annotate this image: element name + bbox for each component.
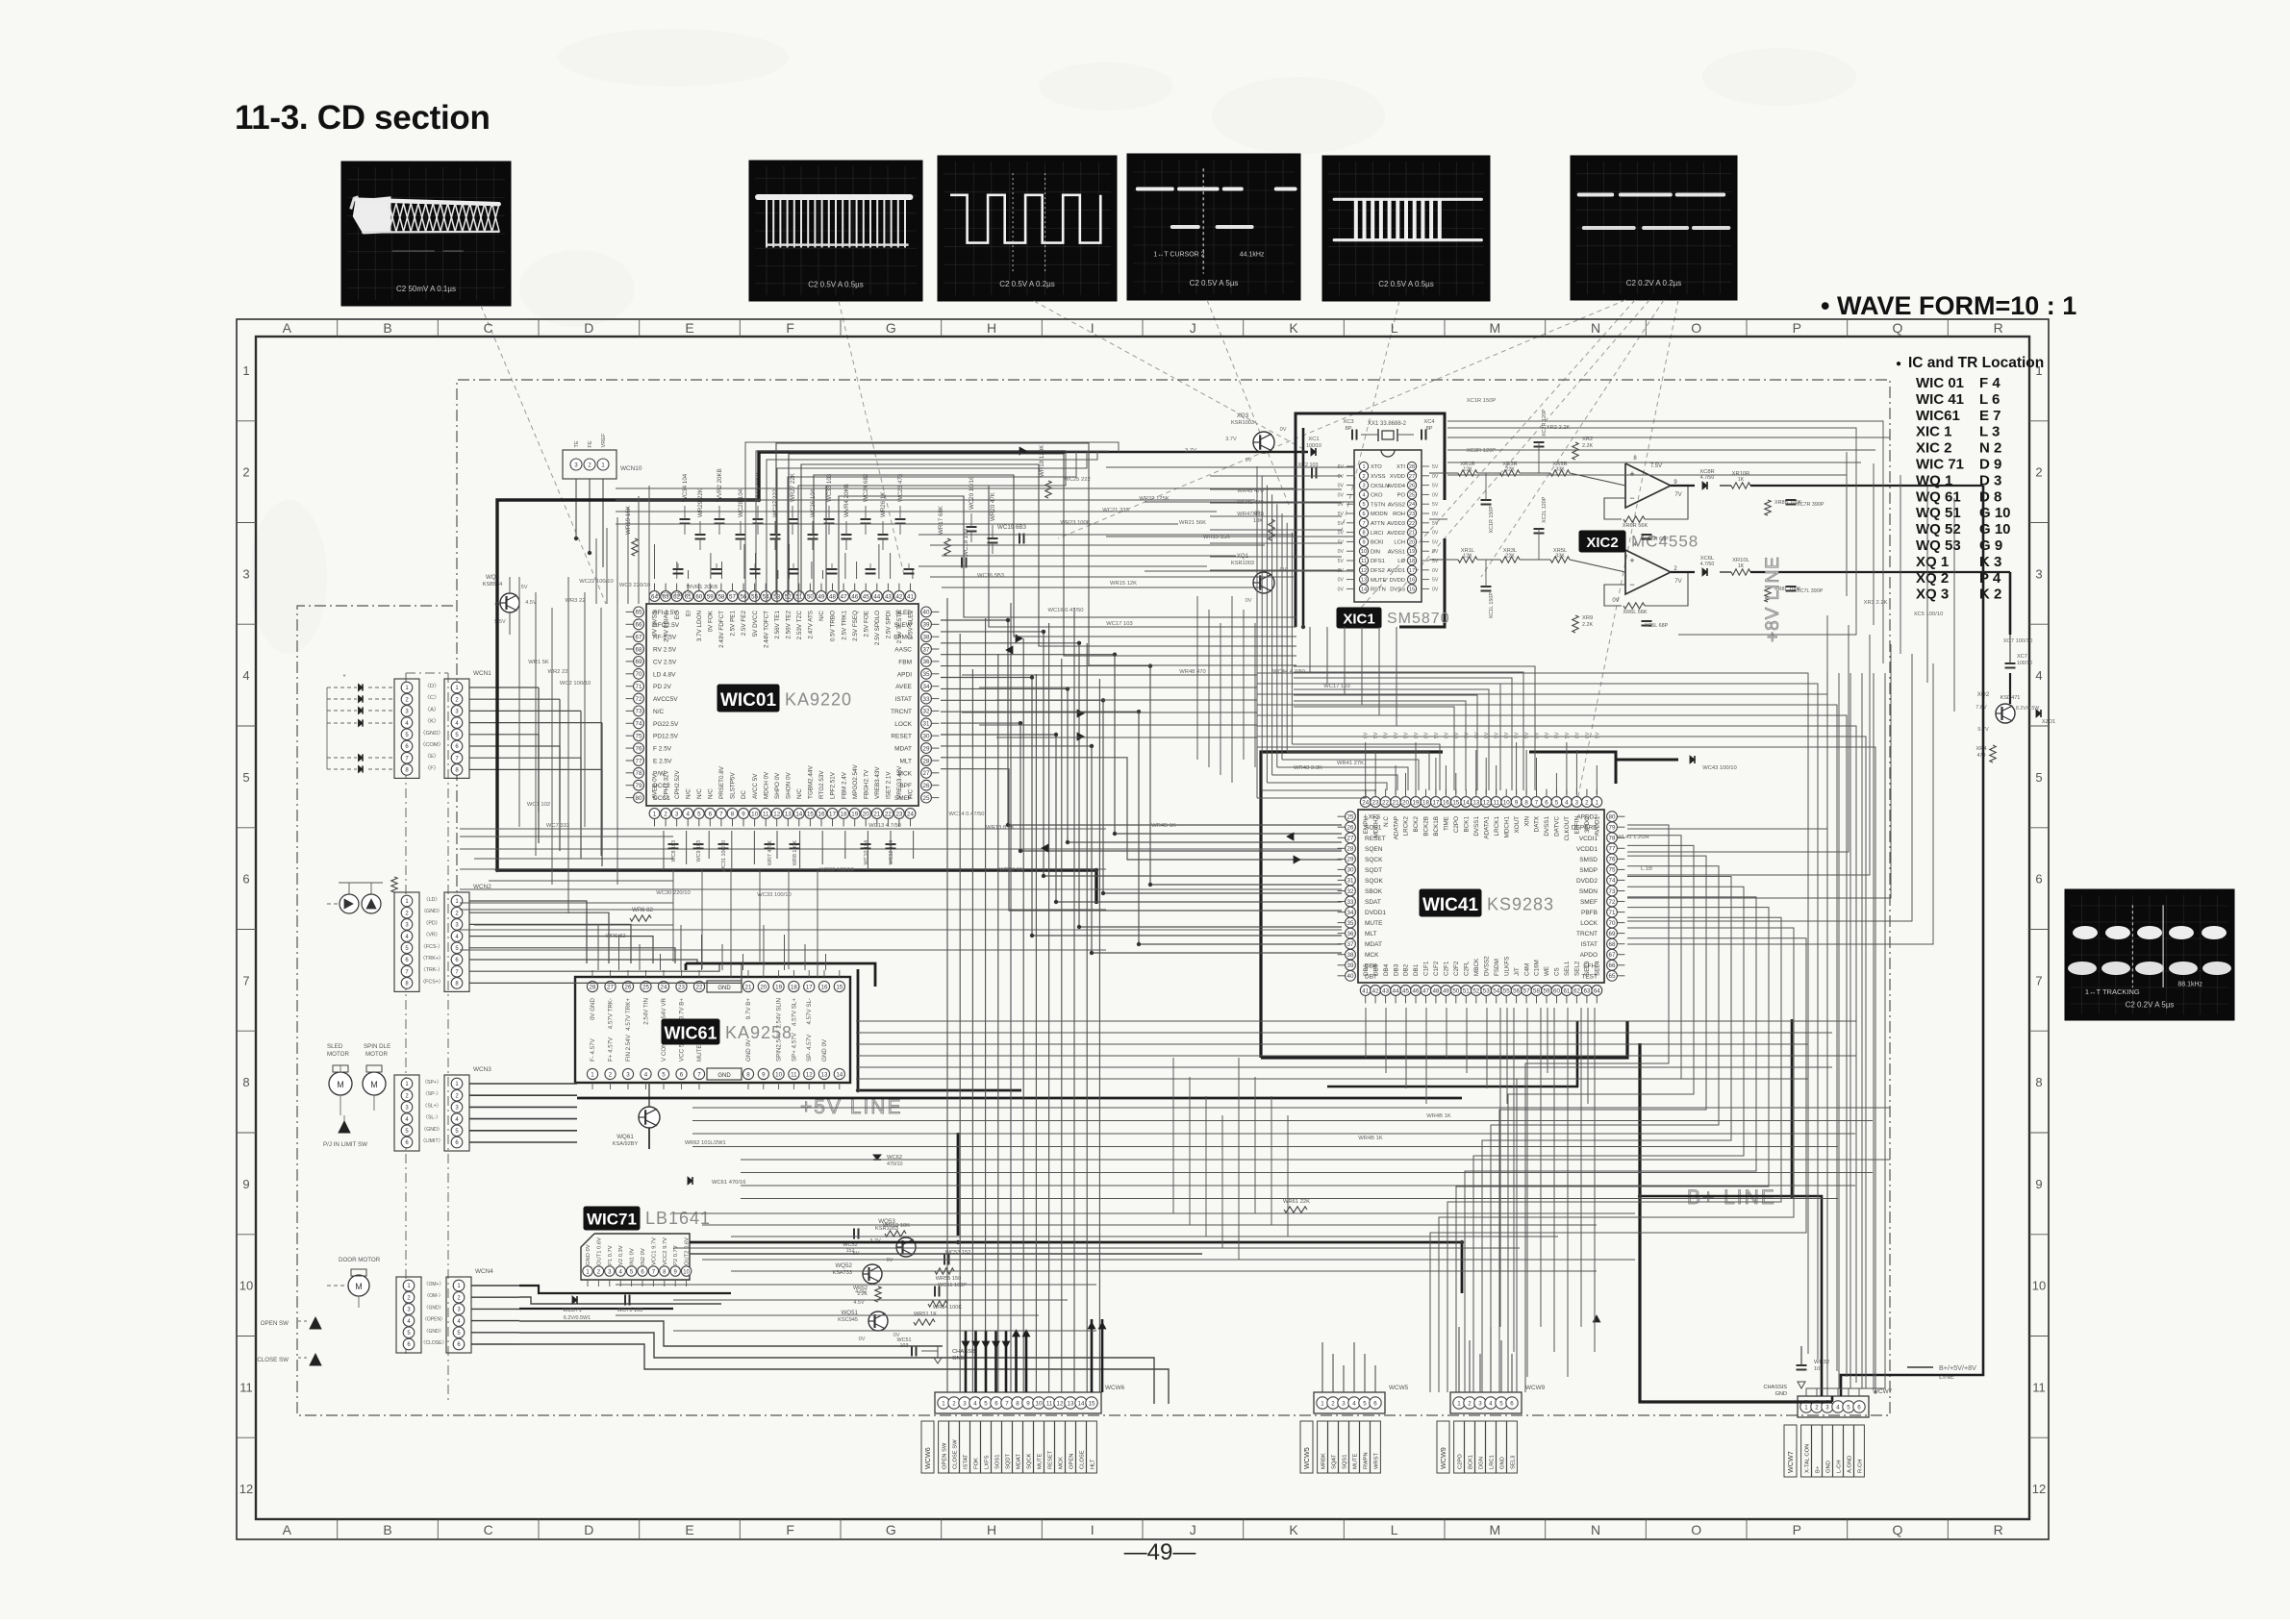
svg-text:〈GND〉: 〈GND〉 <box>420 730 443 737</box>
svg-text:MUTE: MUTE <box>1365 920 1383 927</box>
svg-text:WC28 104: WC28 104 <box>738 488 744 517</box>
svg-text:0V: 0V <box>1338 484 1345 489</box>
svg-text:RFI 2.5V: RFI 2.5V <box>653 610 678 616</box>
resistor XR1 10K <box>1252 512 1274 540</box>
svg-text:RESET: RESET <box>1365 836 1386 842</box>
svg-text:6: 6 <box>2035 872 2042 887</box>
svg-text:2.5V TRK1: 2.5V TRK1 <box>841 611 847 640</box>
bold +8V vertical right <box>1841 486 2010 1396</box>
wire <box>1506 1008 1508 1104</box>
svg-text:DVSS: DVSS <box>1390 587 1405 593</box>
wire <box>535 592 537 856</box>
connector WCN3 board side <box>444 1066 491 1151</box>
svg-text:OPEN: OPEN <box>1070 1454 1075 1469</box>
wire <box>600 608 602 856</box>
connector WCW5 <box>1300 1385 1409 1473</box>
wire <box>1374 750 1376 794</box>
svg-text:39: 39 <box>1347 962 1354 969</box>
wire <box>1547 1008 1548 1073</box>
svg-text:DFS1: DFS1 <box>1371 559 1385 564</box>
svg-text:12K: 12K <box>1463 467 1472 473</box>
svg-text:+: + <box>1629 469 1634 479</box>
wire <box>777 452 1087 604</box>
svg-text:8: 8 <box>731 811 735 817</box>
svg-text:WC16 5B3: WC16 5B3 <box>977 573 1004 579</box>
wires WCN4 to WIC71 <box>471 1286 1169 1404</box>
wire <box>1849 673 1874 1396</box>
svg-text:1: 1 <box>1804 1404 1808 1411</box>
svg-text:〈FCS-〉: 〈FCS-〉 <box>421 943 443 950</box>
svg-text:46: 46 <box>851 593 858 600</box>
svg-text:WIC01: WIC01 <box>720 690 777 711</box>
wire <box>930 544 1265 546</box>
wire <box>616 511 1217 512</box>
svg-text:7.8V: 7.8V <box>1975 705 1987 711</box>
svg-text:OUT1 0.6V: OUT1 0.6V <box>596 1237 602 1265</box>
svg-text:9: 9 <box>242 1177 249 1191</box>
svg-text:DB1: DB1 <box>1413 963 1420 976</box>
svg-text:2.44V TOFCT: 2.44V TOFCT <box>763 611 769 648</box>
svg-text:5V: 5V <box>1384 732 1390 738</box>
svg-text:4.7/50: 4.7/50 <box>1700 475 1715 481</box>
svg-text:6: 6 <box>242 872 249 887</box>
svg-text:8: 8 <box>746 1071 750 1078</box>
capacitor WC52 152 <box>843 1229 858 1255</box>
svg-text:VREF: VREF <box>601 433 607 448</box>
svg-text:2.5V SPDI: 2.5V SPDI <box>886 611 893 639</box>
svg-text:57: 57 <box>729 593 736 600</box>
oscilloscope photo 1 (RF eye pattern) <box>341 162 511 306</box>
wire <box>1555 773 1557 794</box>
wire <box>673 1212 1635 1214</box>
capacitor XC3 8P <box>1343 419 1356 440</box>
wire <box>616 1314 1039 1316</box>
scan smudge artifacts <box>250 29 1856 654</box>
wire <box>856 1032 1832 1034</box>
svg-text:15: 15 <box>807 811 814 817</box>
svg-text:21: 21 <box>1393 799 1399 806</box>
svg-text:4: 4 <box>1352 1400 1356 1407</box>
bold rails right of WIC61 <box>686 963 1021 1090</box>
svg-text:58: 58 <box>1533 987 1540 994</box>
capacitor XC2R 120P <box>1534 409 1548 473</box>
wire <box>1525 750 1527 794</box>
wire <box>1473 887 1744 1392</box>
svg-text:E: E <box>685 1522 693 1537</box>
svg-text:CLOSE SW: CLOSE SW <box>953 1439 959 1469</box>
IC WIC71 (LB1641 motor driver) <box>581 1207 711 1287</box>
svg-text:SMEF: SMEF <box>894 795 912 802</box>
svg-text:WC30 220/10: WC30 220/10 <box>656 890 690 896</box>
svg-text:MODN: MODN <box>1371 512 1388 517</box>
svg-text:72: 72 <box>636 696 642 703</box>
wire <box>1511 1354 1513 1392</box>
svg-text:24: 24 <box>1409 502 1415 508</box>
wire <box>941 678 1342 937</box>
wire <box>688 570 690 579</box>
svg-text:XIC 1: XIC 1 <box>1916 424 1952 440</box>
svg-text:DGN: DGN <box>1479 1457 1485 1469</box>
svg-text:78: 78 <box>636 770 642 777</box>
WCN4 pin labels <box>421 1282 447 1346</box>
svg-text:ISET 2.1V: ISET 2.1V <box>886 771 893 799</box>
svg-text:P: P <box>1793 320 1801 336</box>
wire <box>756 451 1108 604</box>
svg-text:C2F2: C2F2 <box>1453 961 1460 976</box>
svg-text:6: 6 <box>1545 799 1548 806</box>
svg-text:M: M <box>1489 1522 1500 1537</box>
svg-text:3: 3 <box>242 566 249 581</box>
svg-text:C2 0.5V A 0.5µs: C2 0.5V A 0.5µs <box>808 280 864 288</box>
svg-text:71: 71 <box>1609 910 1616 916</box>
wire <box>1266 486 1268 783</box>
svg-text:26: 26 <box>1409 484 1415 489</box>
svg-text:0V: 0V <box>1424 732 1430 738</box>
transistor XQ1 KSR1003 <box>1231 553 1287 604</box>
svg-text:GND: GND <box>1826 1461 1832 1473</box>
svg-text:152: 152 <box>846 1248 855 1254</box>
svg-text:13: 13 <box>1472 799 1479 806</box>
svg-text:GND 0V: GND 0V <box>586 1244 591 1265</box>
svg-text:N/C: N/C <box>653 709 665 715</box>
wire <box>1425 1008 1427 1104</box>
svg-text:MDCH1: MDCH1 <box>1503 816 1510 838</box>
wire <box>1567 1008 1569 1088</box>
svg-text:28: 28 <box>923 758 930 764</box>
svg-text:4.7/50: 4.7/50 <box>1700 562 1715 567</box>
svg-text:5: 5 <box>242 770 249 785</box>
wire <box>1257 726 1856 1383</box>
svg-text:0V: 0V <box>1394 732 1399 738</box>
svg-text:DSPERD: DSPERD <box>1572 825 1598 832</box>
wire <box>1491 866 1719 1392</box>
open switch <box>261 1317 321 1329</box>
svg-text:E 7: E 7 <box>1979 408 2001 424</box>
svg-text:C2 0.2V A 0.2µs: C2 0.2V A 0.2µs <box>1626 279 1682 287</box>
wire <box>617 577 618 885</box>
wire <box>890 553 892 579</box>
svg-text:6: 6 <box>680 1071 684 1078</box>
svg-text:FBM: FBM <box>898 659 912 665</box>
wire junction dots <box>495 450 1794 1244</box>
svg-text:WCN1: WCN1 <box>473 670 491 677</box>
wire <box>811 562 813 579</box>
svg-text:WC19 6B3: WC19 6B3 <box>997 524 1026 531</box>
wire <box>469 948 675 963</box>
svg-text:〈TRK-〉: 〈TRK-〉 <box>421 966 443 973</box>
svg-text:〈K〉: 〈K〉 <box>424 718 439 725</box>
svg-text:WC71 103: WC71 103 <box>617 1308 642 1313</box>
+8V LINE label vertical <box>1763 556 1783 642</box>
svg-text:WR53 10K: WR53 10K <box>883 1223 910 1229</box>
wire <box>1257 673 1808 1354</box>
svg-text:WC9 103: WC9 103 <box>696 840 702 862</box>
wire <box>814 475 1296 637</box>
svg-text:6: 6 <box>1510 1400 1514 1407</box>
wire <box>1172 1058 1174 1213</box>
svg-text:44: 44 <box>873 593 880 600</box>
svg-text:SHPO 0V: SHPO 0V <box>774 772 781 799</box>
svg-text:34: 34 <box>923 684 930 690</box>
svg-text:SEL1: SEL1 <box>1564 961 1571 976</box>
svg-text:39: 39 <box>923 622 930 629</box>
svg-text:73: 73 <box>1609 888 1616 895</box>
wire <box>1145 501 1354 503</box>
svg-text:XQ 1: XQ 1 <box>1916 554 1949 570</box>
svg-text:7: 7 <box>719 811 723 817</box>
svg-text:33K: 33K <box>1555 554 1565 560</box>
wire <box>776 443 1296 665</box>
wire <box>1455 773 1457 794</box>
svg-text:CLOSE SW: CLOSE SW <box>257 1357 289 1363</box>
svg-text:22: 22 <box>1382 799 1389 806</box>
svg-text:FE: FE <box>588 440 593 447</box>
svg-text:21: 21 <box>873 811 880 817</box>
svg-text:MDCH 0V: MDCH 0V <box>763 771 769 799</box>
svg-text:LRCK2: LRCK2 <box>1403 816 1410 837</box>
wire <box>856 1020 1856 1022</box>
svg-text:SEL3: SEL3 <box>1511 1456 1517 1469</box>
oscilloscope photo 7 (tracking blobs, right margin) <box>2065 889 2234 1020</box>
svg-text:SQS1: SQS1 <box>1343 1455 1348 1469</box>
wire <box>1282 760 1419 790</box>
svg-text:VCC1 9.7V: VCC1 9.7V <box>651 1237 657 1265</box>
svg-text:64: 64 <box>1594 987 1600 994</box>
svg-text:72: 72 <box>1609 899 1616 906</box>
svg-text:〈VR〉: 〈VR〉 <box>423 932 440 938</box>
svg-text:3: 3 <box>1478 1400 1482 1407</box>
capacitor WC53 152 <box>944 1250 970 1265</box>
svg-text:0V: 0V <box>1585 732 1591 738</box>
wire <box>551 608 553 885</box>
wire <box>1553 1008 1555 1352</box>
connector WCW6 <box>921 1385 1125 1473</box>
svg-text:IN2 0V: IN2 0V <box>641 1248 646 1265</box>
svg-text:5V: 5V <box>1338 539 1345 545</box>
svg-text:WCW6: WCW6 <box>1105 1385 1125 1391</box>
svg-text:0V: 0V <box>1432 492 1439 498</box>
svg-text:MOTOR: MOTOR <box>365 1051 388 1058</box>
wire <box>731 1236 1558 1237</box>
svg-text:SLED: SLED <box>327 1043 343 1050</box>
capacitor WC18 183 <box>962 528 969 567</box>
svg-text:SOS1: SOS1 <box>995 1455 1001 1469</box>
svg-text:〈GND〉: 〈GND〉 <box>421 908 442 914</box>
svg-text:WQ61: WQ61 <box>617 1134 634 1140</box>
resistor WR19 15K <box>625 505 638 556</box>
svg-text:61: 61 <box>1563 987 1570 994</box>
wire <box>1294 707 1454 790</box>
svg-text:DATVC: DATVC <box>1554 816 1561 837</box>
svg-text:GND: GND <box>1500 1457 1506 1469</box>
wire <box>1261 476 1263 790</box>
svg-text:20: 20 <box>760 984 767 990</box>
wire <box>1575 750 1577 794</box>
B+ LINE label <box>1687 1187 1776 1209</box>
svg-text:76: 76 <box>1609 857 1616 863</box>
svg-text:K: K <box>1289 320 1298 336</box>
svg-text:69: 69 <box>1609 931 1616 937</box>
wire <box>1091 1319 1094 1392</box>
svg-text:5: 5 <box>697 811 701 817</box>
wire <box>759 870 761 962</box>
wire <box>1005 1331 1008 1392</box>
svg-text:XC3R 120P: XC3R 120P <box>1467 448 1497 454</box>
wire <box>686 831 688 864</box>
svg-text:WIC 41: WIC 41 <box>1916 391 1964 408</box>
svg-text:ATTN: ATTN <box>1371 521 1385 527</box>
grid column letters bottom <box>283 1519 2003 1539</box>
svg-text:XC1: XC1 <box>1308 437 1319 442</box>
wire <box>1257 684 1818 1360</box>
capacitor XC7L 390P <box>1786 587 1824 594</box>
wire <box>826 486 1296 627</box>
connector WCN1 board side <box>444 670 491 778</box>
IC XIC1 (SM5870 DAC) <box>1337 450 1450 628</box>
svg-text:ISTAT: ISTAT <box>895 696 912 703</box>
svg-text:22K: 22K <box>1505 554 1515 560</box>
wire <box>1257 790 1366 798</box>
svg-text:45: 45 <box>1402 987 1409 994</box>
svg-text:DFS2: DFS2 <box>1371 568 1385 574</box>
svg-text:WIC 01: WIC 01 <box>1916 375 1964 391</box>
svg-text:0V: 0V <box>1432 474 1439 480</box>
svg-text:ISTAT: ISTAT <box>964 1454 969 1469</box>
feedback resistor XR6R 56K <box>1623 516 1648 529</box>
bold line wq61 rail <box>577 1097 1462 1100</box>
svg-text:WR6 82: WR6 82 <box>606 934 626 939</box>
svg-text:68: 68 <box>636 646 642 653</box>
svg-text:SHON 0V: SHON 0V <box>786 772 793 799</box>
wire <box>1496 765 1497 794</box>
wire <box>721 944 723 970</box>
svg-text:17: 17 <box>806 984 813 990</box>
svg-text:P/J IN LIMIT SW: P/J IN LIMIT SW <box>323 1141 367 1148</box>
svg-text:C2 0.5V A 5µs: C2 0.5V A 5µs <box>1190 279 1239 287</box>
svg-text:68: 68 <box>1609 941 1616 948</box>
svg-text:G: G <box>886 1522 896 1537</box>
svg-text:47: 47 <box>841 593 847 600</box>
capacitor XC1R 150P <box>1481 473 1496 533</box>
svg-text:RWPN: RWPN <box>1364 1452 1370 1469</box>
svg-text:SQDT: SQDT <box>1365 867 1382 874</box>
svg-text:R: R <box>1994 320 2003 336</box>
svg-text:WR8 100K: WR8 100K <box>793 840 798 865</box>
svg-text:80: 80 <box>1609 814 1616 821</box>
wire <box>595 538 597 604</box>
svg-text:WQ52: WQ52 <box>835 1262 852 1269</box>
svg-text:P1 0.7V: P1 0.7V <box>608 1245 614 1265</box>
svg-text:62: 62 <box>1573 987 1580 994</box>
svg-text:16: 16 <box>818 811 825 817</box>
svg-text:0V: 0V <box>1612 598 1619 604</box>
svg-text:9: 9 <box>1026 1400 1030 1407</box>
svg-text:470/10: 470/10 <box>887 1162 903 1167</box>
wire <box>753 831 755 864</box>
svg-text:0V: 0V <box>1280 427 1287 433</box>
svg-text:7: 7 <box>2035 973 2042 987</box>
svg-text:8: 8 <box>2035 1075 2042 1089</box>
wire <box>1447 421 1883 663</box>
wire <box>784 935 786 970</box>
svg-text:WR20 47K: WR20 47K <box>990 491 996 521</box>
svg-text:BCK1: BCK1 <box>1469 1455 1474 1469</box>
svg-text:XC7L 390P: XC7L 390P <box>1797 588 1824 594</box>
resistor WR18 120K <box>1039 444 1051 498</box>
svg-text:WR4B 1K: WR4B 1K <box>1358 1136 1383 1141</box>
resistor XR5R 33K <box>1550 462 1570 476</box>
wire <box>788 452 1076 604</box>
wire <box>1500 1340 1502 1392</box>
svg-text:40: 40 <box>923 610 930 616</box>
svg-text:5V: 5V <box>1495 732 1500 738</box>
svg-text:〈LD〉: 〈LD〉 <box>423 896 440 903</box>
wire <box>1271 494 1273 775</box>
svg-text:5V: 5V <box>1554 732 1560 738</box>
wire <box>1516 742 1518 794</box>
svg-text:23: 23 <box>678 984 685 990</box>
svg-text:AASC: AASC <box>894 647 912 654</box>
wire <box>469 924 631 963</box>
svg-text:WC10 104: WC10 104 <box>864 840 869 864</box>
leader line photo4 <box>1207 300 1289 505</box>
svg-text:SMSD: SMSD <box>1579 857 1598 863</box>
voltage marks <box>1364 732 1601 738</box>
wire <box>1456 908 1769 1392</box>
svg-text:0V: 0V <box>1574 732 1580 738</box>
svg-text:XC2R 120P: XC2R 120P <box>1542 409 1548 437</box>
svg-text:L-CH: L-CH <box>1837 1460 1843 1473</box>
svg-text:77: 77 <box>1609 846 1616 853</box>
svg-text:5: 5 <box>1847 1404 1850 1411</box>
svg-text:MCK: MCK <box>1059 1457 1065 1469</box>
svg-text:WC14 0.47/50: WC14 0.47/50 <box>948 812 984 817</box>
svg-text:7.5V: 7.5V <box>1650 463 1662 469</box>
wire <box>1048 623 1050 1392</box>
wire <box>1271 1096 1272 1225</box>
svg-text:52: 52 <box>785 593 792 600</box>
wires WCN1 to circuit <box>469 687 602 866</box>
svg-text:WR41 27K: WR41 27K <box>1337 761 1364 766</box>
svg-text:CLOSE: CLOSE <box>1080 1450 1086 1469</box>
svg-text:SDAT: SDAT <box>1365 899 1381 906</box>
svg-text:0V: 0V <box>1545 732 1550 738</box>
wire <box>1210 488 1342 490</box>
wire <box>742 954 744 970</box>
svg-text:WC25 222: WC25 222 <box>1064 477 1090 483</box>
svg-text:〈TRK+〉: 〈TRK+〉 <box>420 955 443 962</box>
svg-text:100/10: 100/10 <box>2017 661 2032 666</box>
svg-text:FIN 2.54V: FIN 2.54V <box>625 1034 632 1062</box>
svg-text:C2FL: C2FL <box>1464 961 1471 976</box>
svg-text:WR1 5K: WR1 5K <box>528 660 549 665</box>
svg-text:46: 46 <box>1413 987 1420 994</box>
svg-text:MRBK: MRBK <box>1321 1453 1327 1469</box>
capacitor row2-3 <box>789 568 799 570</box>
svg-text:MDAT: MDAT <box>1365 941 1382 948</box>
wire <box>755 553 757 579</box>
wire <box>965 1331 968 1392</box>
svg-text:80: 80 <box>636 795 642 802</box>
svg-text:PD 2V: PD 2V <box>653 684 671 690</box>
svg-text:TRCNT: TRCNT <box>891 709 912 715</box>
svg-text:ADATA1: ADATA1 <box>1483 816 1490 839</box>
svg-text:13: 13 <box>1068 1400 1074 1407</box>
capacitor WC8 <box>668 843 679 845</box>
svg-text:+: + <box>1629 556 1634 565</box>
svg-text:16: 16 <box>821 984 828 990</box>
svg-text:WCN3: WCN3 <box>473 1066 491 1073</box>
